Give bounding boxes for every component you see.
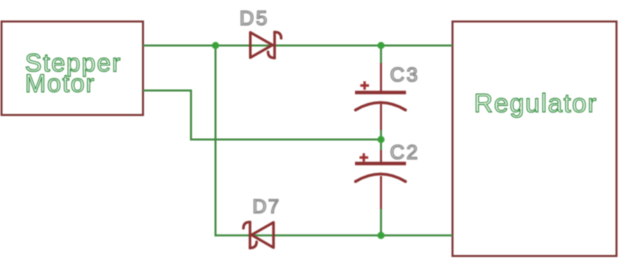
diode D5 (Schottky, anode left, cathode right): [250, 32, 281, 58]
wire: vertical stub from top junction down to C3 pin: [380, 46, 382, 65]
curved bottom plate of C2: [356, 174, 406, 182]
capacitor C2 (polarized): [355, 150, 406, 209]
plus sign of C3 polarity: [360, 81, 369, 90]
component box: Regulator: [453, 22, 617, 257]
curved bottom plate of C3: [356, 103, 406, 111]
wire: bottom net through D7 to Regulator pin: [215, 234, 453, 236]
svg-text:D7: D7: [253, 196, 281, 218]
capacitor C3 (polarized): [355, 63, 406, 130]
wire: horizontal run to mid junction between C3 and C2: [191, 139, 381, 141]
pin 2 lead of C3: [380, 104, 382, 130]
diode D7 (Schottky, anode right, cathode left): [243, 222, 273, 248]
svg-text:C2: C2: [390, 142, 420, 164]
pin 2 lead of C2: [380, 176, 382, 209]
svg-text:Regulator: Regulator: [474, 88, 598, 118]
svg-text:D5: D5: [240, 8, 270, 30]
junction: top net at C3: [377, 42, 384, 49]
pin 1 lead of C2: [380, 150, 382, 164]
junction: bottom net at C2: [377, 232, 384, 239]
junction: top-left node (top net / vertical drop): [212, 42, 219, 49]
svg-text:C3: C3: [390, 65, 420, 87]
wire: second Stepper Motor pin horizontal stub: [143, 90, 192, 92]
wire: vertical drop of second stub: [190, 90, 192, 141]
wire: vertical stub from mid junction to C2 top pin: [380, 140, 382, 152]
top plate of C3: [355, 91, 406, 94]
plus sign of C2 polarity: [360, 153, 369, 162]
wire: top net from Stepper Motor pin to Regulator pin: [143, 45, 453, 47]
pin 1 lead of C3: [380, 63, 382, 93]
wire: long vertical from top junction down to bottom net: [215, 46, 217, 237]
wire: vertical stub from C2 bottom pin to bottom junction: [380, 208, 382, 235]
svg-text:Motor: Motor: [25, 70, 95, 98]
component box: Stepper Motor (U?): [2, 22, 144, 116]
wire: vertical stub from C3 bottom pin to mid junction: [380, 129, 382, 140]
top plate of C2: [355, 162, 406, 165]
junction: mid node between C3 and C2: [377, 136, 384, 143]
